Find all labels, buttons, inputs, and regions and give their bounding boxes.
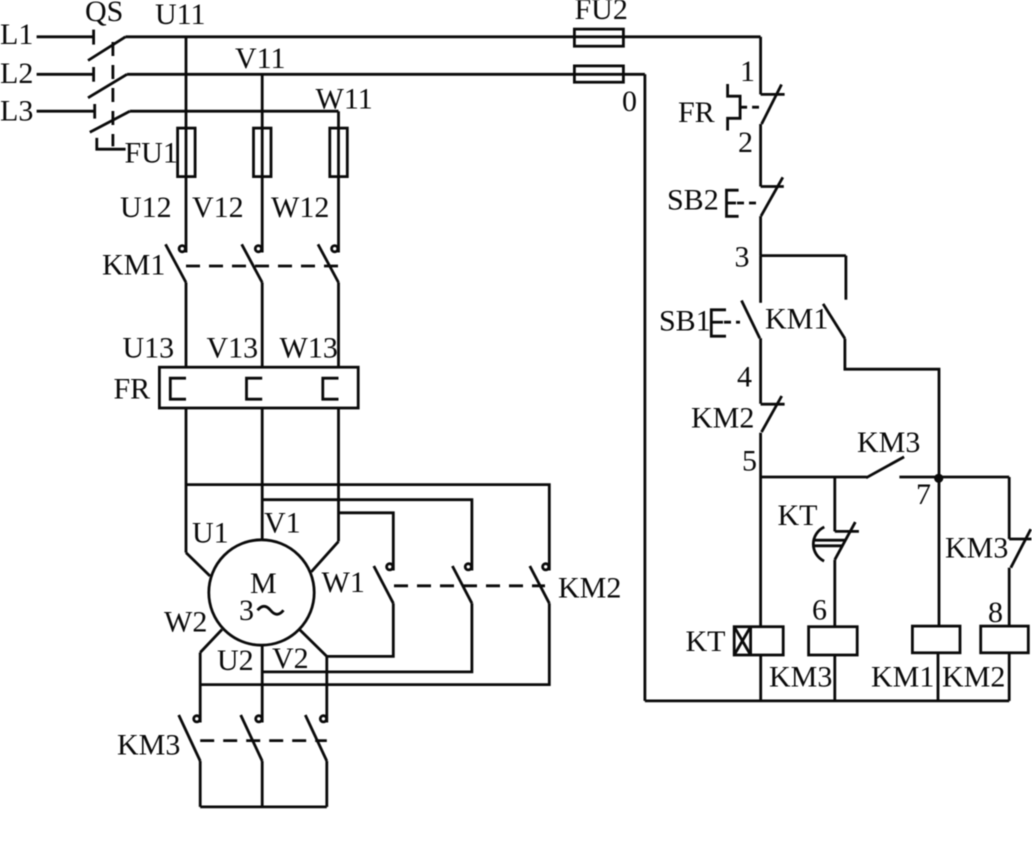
wire phase W to motor	[311, 408, 338, 572]
svg-text:V12: V12	[192, 191, 244, 224]
thermal relay FR heaters	[114, 367, 359, 408]
svg-text:W1: W1	[322, 566, 365, 599]
wire V11 drop	[261, 74, 264, 252]
svg-text:V13: V13	[207, 332, 259, 365]
wire 5 to KT coil	[759, 477, 762, 627]
svg-text:KM2: KM2	[942, 661, 1005, 694]
wire L3 bus	[130, 110, 339, 113]
svg-text:W13: W13	[280, 332, 338, 365]
wire 0 line	[644, 74, 647, 701]
contactor KM3 NC aux contact	[945, 477, 1032, 626]
pushbutton SB1	[659, 256, 761, 339]
svg-text:SB1: SB1	[659, 305, 711, 338]
contactor KM3 NO aux contact	[857, 426, 1009, 478]
coil KT	[686, 625, 784, 701]
wire W13 segment	[337, 283, 340, 368]
node L3	[0, 95, 95, 128]
svg-text:U11: U11	[155, 0, 206, 31]
wire V2 lead	[300, 630, 327, 723]
svg-text:L2: L2	[0, 57, 33, 90]
wire node5 branch	[761, 476, 867, 479]
thermal relay FR contact	[678, 84, 785, 131]
wire U2 lead	[261, 645, 264, 722]
wire W-phase to KM2 contact 1	[339, 513, 394, 571]
svg-text:V2: V2	[272, 642, 309, 675]
timer KT delayed contact	[778, 477, 859, 627]
svg-text:W11: W11	[316, 82, 373, 115]
svg-text:KM3: KM3	[117, 728, 180, 761]
svg-text:3: 3	[735, 240, 750, 273]
wire 4-5 segment	[759, 433, 762, 477]
switch QS	[85, 0, 130, 149]
svg-text:1: 1	[740, 55, 755, 88]
wire W2 to KM2 contact 3 bottom	[200, 603, 549, 684]
wire phase V to motor	[261, 408, 264, 540]
svg-text:V11: V11	[235, 42, 286, 75]
svg-text:KM2: KM2	[558, 572, 621, 605]
wire U2 to KM2 contact 2 bottom	[262, 603, 472, 672]
svg-text:KM1: KM1	[765, 302, 828, 335]
svg-text:U2: U2	[217, 644, 254, 677]
svg-text:KM1: KM1	[871, 660, 934, 693]
svg-text:U12: U12	[120, 191, 172, 224]
wire control top	[759, 37, 762, 95]
node L1	[0, 18, 94, 51]
wire 2-3 segment	[759, 216, 762, 256]
node 7 junction	[916, 474, 943, 511]
svg-text:W2: W2	[164, 605, 207, 638]
svg-text:L3: L3	[0, 95, 33, 128]
coil KM2	[942, 626, 1028, 701]
pushbutton SB2	[667, 177, 784, 216]
wire V-phase to KM2 contact 2	[262, 500, 472, 571]
svg-text:8: 8	[988, 596, 1003, 629]
wire L1 bus	[126, 35, 761, 38]
svg-text:QS: QS	[85, 0, 123, 28]
svg-text:6: 6	[812, 594, 827, 627]
svg-text:KT: KT	[686, 625, 726, 658]
svg-text:W12: W12	[271, 191, 329, 224]
svg-text:FU2: FU2	[575, 0, 628, 26]
wire L2 bus	[127, 73, 645, 76]
motor M 3~	[209, 540, 314, 645]
svg-text:SB2: SB2	[667, 183, 719, 216]
svg-text:KM3: KM3	[769, 661, 832, 694]
svg-text:L1: L1	[0, 18, 33, 51]
node L2	[0, 57, 94, 90]
svg-text:KM1: KM1	[102, 249, 165, 282]
svg-text:4: 4	[737, 360, 752, 393]
svg-text:KM3: KM3	[945, 531, 1008, 564]
wire V2 to KM2 contact 1 bottom	[327, 603, 394, 656]
svg-text:FR: FR	[678, 96, 715, 129]
wire 3-4 segment	[759, 338, 762, 403]
wire KM3 star bar	[200, 761, 327, 807]
svg-text:0: 0	[622, 85, 637, 118]
svg-text:5: 5	[742, 445, 757, 478]
contactor KM2 main contacts	[374, 564, 622, 605]
svg-text:U1: U1	[192, 516, 229, 549]
wire U11 drop	[185, 37, 188, 253]
svg-text:2: 2	[738, 126, 753, 159]
svg-text:7: 7	[916, 478, 931, 511]
svg-text:FR: FR	[114, 373, 151, 406]
wire V13 segment	[261, 283, 264, 368]
svg-text:3: 3	[239, 594, 254, 627]
wire bottom rail	[645, 700, 1009, 703]
wire node3 branch	[761, 254, 846, 257]
fuse FU2	[574, 0, 627, 82]
contactor KM2 NC interlock	[691, 396, 785, 434]
wire phase U to motor	[186, 408, 210, 576]
contactor KM1 main contacts	[102, 244, 339, 282]
svg-text:KM2: KM2	[691, 401, 754, 434]
svg-text:FU1: FU1	[125, 136, 178, 169]
coil KM3	[769, 627, 857, 701]
wire U13 segment	[185, 283, 188, 368]
wire 1-2 segment	[759, 124, 762, 187]
coil KM1	[871, 626, 960, 701]
contactor KM3 main contacts	[117, 715, 327, 761]
svg-text:U13: U13	[123, 332, 175, 365]
wire W2 lead	[200, 630, 222, 723]
fuse FU1	[125, 128, 348, 177]
wire U-phase to KM2 contact 3	[186, 485, 549, 571]
wire W11 drop	[337, 111, 340, 252]
contactor KM1 aux contact	[765, 256, 939, 626]
svg-text:KT: KT	[778, 499, 818, 532]
svg-text:V1: V1	[264, 506, 301, 539]
svg-text:KM3: KM3	[857, 426, 920, 459]
svg-text:M: M	[250, 567, 277, 600]
